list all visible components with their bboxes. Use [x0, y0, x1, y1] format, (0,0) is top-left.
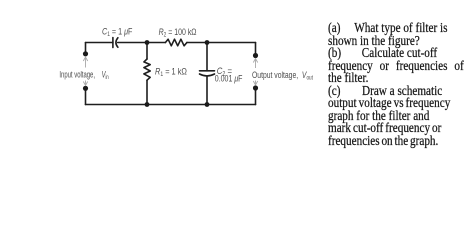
- label output voltage: [252, 70, 313, 82]
- label R1 value: [155, 66, 187, 79]
- node B junction dot (top of C2): [205, 40, 210, 45]
- circuit schematic figure: [0, 0, 474, 159]
- label input voltage: [59, 69, 108, 81]
- wire left terminal upper (top-left corner down to input top terminal): [85, 43, 87, 54]
- bottom rail junction dot (C2): [205, 102, 210, 107]
- capacitor C1 left plate: [112, 38, 114, 48]
- label C2 value: [215, 72, 243, 83]
- node A junction dot (top of R1): [145, 40, 150, 45]
- wire C2 branch bottom (C2 to bottom rail): [206, 76, 208, 104]
- output bottom terminal dot: [253, 85, 258, 90]
- question text block: [328, 23, 464, 148]
- label R2 value: [159, 26, 197, 39]
- wire top-left segment (left corner to C1 left plate): [86, 42, 113, 44]
- label C2 designator: [217, 65, 232, 78]
- svg-text:R1 = 1 kΩ: R1 = 1 kΩ: [155, 66, 187, 79]
- input voltage arrowhead down: [83, 82, 87, 86]
- wire R1 branch top (node A down to R1): [146, 43, 148, 60]
- wire C2 branch top (node B down to C2 top plate): [206, 43, 208, 71]
- output voltage arrowhead down: [253, 81, 257, 85]
- svg-text:Output voltage, Vout: Output voltage, Vout: [252, 70, 313, 82]
- capacitor C1 right curved plate: [116, 38, 118, 48]
- svg-text:C1 = 1 μF: C1 = 1 μF: [102, 25, 132, 38]
- capacitor C2 bottom curved plate: [200, 74, 215, 76]
- input top terminal dot: [83, 51, 88, 56]
- resistor R2 zigzag: [165, 39, 187, 46]
- label C1 value: [102, 25, 132, 38]
- output voltage double arrow shaft: [255, 59, 257, 85]
- wire right terminal lower (output bottom terminal to bottom-right corner): [255, 88, 257, 105]
- svg-text:Input voltage, Vin: Input voltage, Vin: [59, 69, 108, 81]
- wire top middle segment (C1 right plate to node A): [118, 42, 166, 44]
- svg-text:0.001 μF: 0.001 μF: [215, 72, 243, 83]
- capacitor C2 top plate: [200, 70, 215, 72]
- output voltage arrowhead up: [253, 59, 257, 63]
- wire left terminal lower (input bottom terminal to bottom-left corner): [85, 89, 87, 105]
- wire R1 branch bottom (R1 to bottom rail): [146, 80, 148, 104]
- wire top segment (R2 right end to node B and right corner): [187, 42, 256, 44]
- wire bottom rail: [86, 104, 256, 106]
- wire right terminal upper (top-right corner down to output top terminal): [255, 43, 257, 56]
- input voltage arrowhead up: [83, 57, 87, 61]
- resistor R1 zigzag: [144, 59, 150, 80]
- input bottom terminal dot: [83, 86, 88, 91]
- input voltage double arrow shaft: [85, 58, 87, 86]
- bottom rail junction dot (R1): [145, 102, 150, 107]
- output top terminal dot: [253, 53, 258, 58]
- svg-text:R2 = 100 kΩ: R2 = 100 kΩ: [159, 26, 197, 39]
